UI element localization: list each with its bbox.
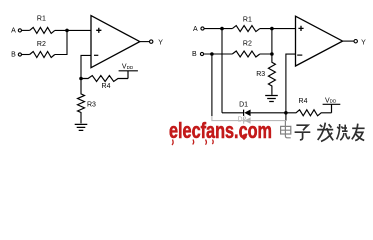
resistor R2 (right) — [232, 51, 260, 57]
svg-text:elecfans.com: elecfans.com — [169, 118, 272, 143]
resistor R1 (left) — [30, 27, 55, 33]
diode D2 (faded) — [243, 118, 245, 124]
watermark logo swash tails — [172, 140, 213, 146]
power VDD (right) bar — [323, 104, 341, 113]
svg-text:VDD: VDD — [122, 64, 134, 71]
junction dot B-node (right) — [210, 52, 214, 56]
wire U1 output — [140, 41, 150, 43]
resistor R4 (left) — [81, 76, 128, 82]
svg-text:R1: R1 — [37, 15, 46, 22]
terminal Y (right) — [354, 40, 357, 43]
svg-text:R4: R4 — [102, 83, 111, 90]
junction dot node1 (right) — [270, 27, 274, 31]
terminal Y (left) — [150, 40, 153, 43]
ground (right) — [265, 96, 278, 102]
svg-text:R1: R1 — [243, 17, 252, 24]
U2 minus input symbol — [297, 54, 302, 56]
resistor R2 (left) — [30, 52, 55, 58]
op-amp U2 (right) triangle — [296, 16, 343, 66]
svg-text:Y: Y — [361, 39, 366, 46]
wire B-node down to D2 — [211, 54, 213, 116]
watermark logo dot diamond — [241, 134, 247, 140]
watermark chinese char 烧 — [337, 124, 350, 140]
wire minus input vertical (right) — [286, 54, 296, 121]
op-amp U1 (left) triangle — [91, 16, 140, 68]
wire A to R1 — [22, 29, 30, 31]
U2 plus input symbol — [298, 26, 303, 31]
svg-text:R2: R2 — [37, 41, 46, 48]
wire R1 to op-amp + input — [55, 29, 91, 31]
diode D1 — [243, 110, 245, 116]
wire A to R1 (right) — [204, 28, 232, 30]
wire D2 bus (faded) — [212, 116, 286, 121]
svg-text:VDD: VDD — [325, 97, 337, 104]
junction dot node3 (right, D1/R4/minus) — [284, 111, 288, 115]
watermark chinese char 子 — [295, 125, 311, 140]
svg-text:D1: D1 — [239, 101, 248, 108]
junction dot node2 (left, R3/R4/minus) — [79, 77, 83, 81]
wire B to R2 — [22, 54, 30, 56]
junction dot node1 (left) — [65, 29, 69, 33]
wire B to R2 (right) — [204, 53, 233, 55]
ground (left) — [75, 124, 88, 130]
watermark chinese char 发 — [317, 123, 333, 142]
resistor R1 (right) — [232, 26, 260, 32]
svg-text:R3: R3 — [87, 101, 96, 108]
watermark chinese char 友 — [352, 124, 365, 141]
wire R1 to op-amp + (right) — [260, 28, 296, 30]
junction dot node2 (right) — [270, 52, 274, 56]
terminal A (left) — [18, 29, 21, 32]
wire A-node down to D1 — [221, 29, 223, 113]
svg-text:B: B — [11, 52, 16, 59]
svg-text:A: A — [193, 26, 198, 33]
svg-text:B: B — [192, 51, 197, 58]
wire D1 bus — [222, 112, 286, 114]
terminal B (right) — [200, 52, 203, 55]
svg-text:Y: Y — [158, 39, 163, 46]
wire R2 to node1 (right) — [260, 29, 272, 54]
resistor R3 (left) — [78, 79, 85, 124]
wire minus input stub (left) — [81, 55, 91, 78]
terminal A (right) — [201, 27, 204, 30]
power VDD (left) bar — [119, 71, 138, 79]
svg-text:R4: R4 — [299, 98, 308, 105]
junction dot A-node (right) — [220, 27, 224, 31]
svg-text:R3: R3 — [256, 71, 265, 78]
resistor R4 (right) — [286, 110, 332, 116]
wire U2 output — [343, 40, 354, 42]
U1 minus input symbol — [94, 54, 98, 56]
watermark chinese char 电 (faded) — [281, 121, 291, 138]
U1 plus input symbol — [96, 28, 101, 33]
terminal B (left) — [18, 53, 21, 56]
svg-text:R2: R2 — [243, 41, 252, 48]
svg-text:A: A — [11, 28, 16, 35]
wire R2 up to node1 — [55, 30, 67, 54]
resistor R3 (right) — [268, 54, 275, 95]
